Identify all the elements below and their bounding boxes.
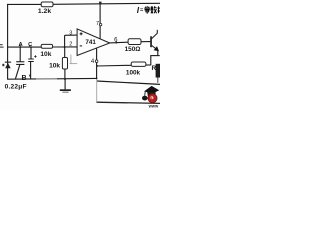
svg-text:150Ω: 150Ω — [125, 46, 141, 53]
svg-text:4: 4 — [91, 59, 95, 65]
svg-text:10k: 10k — [40, 51, 51, 58]
svg-text:2: 2 — [69, 42, 72, 48]
svg-text:100k: 100k — [126, 70, 141, 77]
svg-text:741: 741 — [85, 39, 96, 46]
svg-text:0.22μF: 0.22μF — [5, 83, 27, 90]
svg-text:3: 3 — [69, 31, 72, 37]
svg-text:B: B — [22, 75, 27, 82]
svg-text:7: 7 — [96, 21, 99, 27]
svg-text:10k: 10k — [49, 62, 60, 69]
svg-text:=: = — [140, 8, 144, 14]
svg-text:R: R — [152, 65, 157, 72]
svg-text:1.2k: 1.2k — [38, 8, 51, 15]
svg-text:WWW: WWW — [149, 105, 159, 109]
